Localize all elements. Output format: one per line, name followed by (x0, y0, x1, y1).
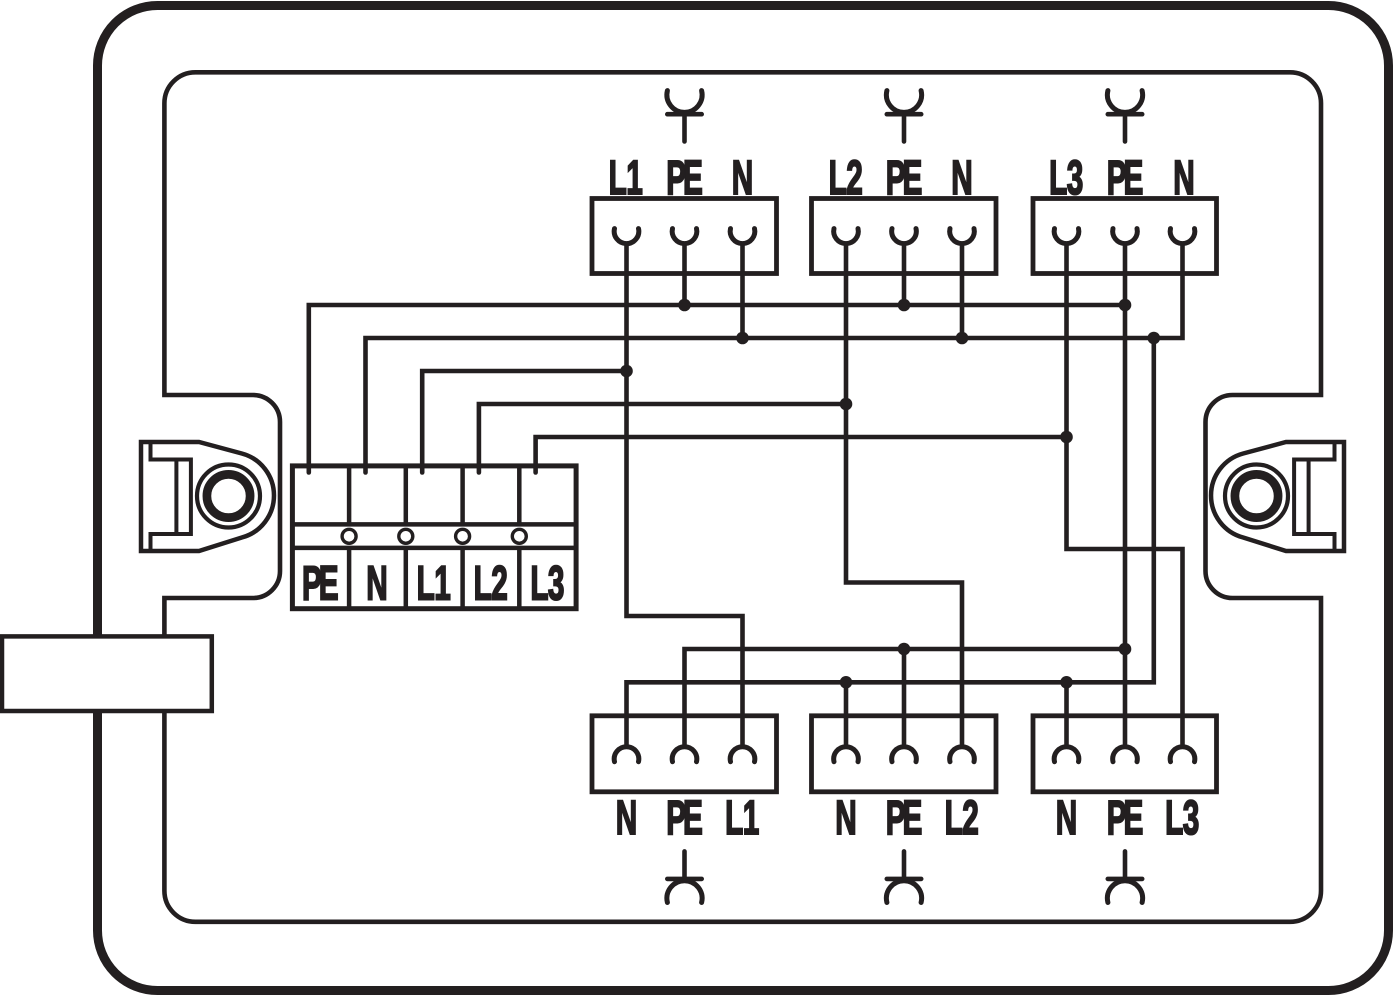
clamp contact N terminal block3 (1170, 229, 1195, 244)
wire stub N cell (363, 466, 368, 473)
junction PE-bottom-mid (898, 643, 911, 656)
junction N-bottom-right (1060, 676, 1073, 689)
clamp contact PE terminal block4 (672, 747, 697, 762)
socket symbol bottom 1 (667, 851, 702, 902)
wire stub PE cell (306, 466, 311, 473)
distribution block (PE N L1 L2 L3) (292, 466, 576, 609)
test port 4 (512, 529, 526, 543)
wire L3 feed to distribution block (536, 437, 1067, 465)
junction PE-B2 (898, 299, 911, 312)
clamp contact N terminal block6 (1054, 747, 1079, 762)
svg-text:PE: PE (666, 152, 702, 205)
svg-text:L2: L2 (829, 152, 862, 205)
clamp contact PE terminal block1 (672, 229, 697, 244)
mounting lug right (1211, 442, 1344, 551)
distribution block body (292, 466, 576, 609)
svg-text:L1: L1 (609, 152, 643, 205)
clamp contact PE terminal block2 (892, 229, 917, 244)
svg-text:PE: PE (302, 557, 338, 610)
svg-text:N: N (616, 792, 637, 845)
wire N bus top with B3 N stem (366, 243, 1183, 465)
junction L1 (620, 365, 633, 378)
svg-text:PE: PE (886, 792, 922, 845)
junction PE-B3 (1119, 299, 1132, 312)
junction PE-bottom-right (1119, 643, 1132, 656)
socket symbol top 2 (886, 91, 921, 142)
wire N entry bottom right (1064, 682, 1069, 747)
junction L3 (1060, 431, 1073, 444)
clamp contact PE terminal block6 (1113, 747, 1138, 762)
clamp contact PE terminal block3 (1113, 229, 1138, 244)
wire PE bus bottom (685, 649, 1126, 747)
wire stub L1 cell (420, 466, 425, 473)
clamp contact N terminal block2 (950, 229, 975, 244)
clamp contact L2 terminal block2 (834, 229, 859, 244)
separator line upper (292, 522, 576, 527)
socket symbol bottom 2 (886, 851, 921, 902)
terminal block bottom 3 (N PE L3) (1033, 716, 1217, 792)
wire L1 feed to distribution block (422, 371, 626, 465)
svg-text:L3: L3 (1049, 152, 1082, 205)
socket symbol bottom 3 (1107, 851, 1142, 902)
wire PE stem block2 (902, 243, 907, 305)
socket symbol top 3 (1107, 91, 1142, 142)
wire PE stem block3 down to bottom (1123, 243, 1128, 747)
enclosure inner wall with lug notches (164, 72, 1321, 922)
wire N stem block1 (740, 243, 745, 338)
test port 3 (456, 529, 470, 543)
clamp contact L1 terminal block4 (730, 747, 755, 762)
svg-text:N: N (835, 792, 856, 845)
svg-text:N: N (732, 152, 753, 205)
svg-text:L3: L3 (1165, 792, 1198, 845)
wire stub L3 cell (533, 466, 538, 473)
cable entry tab left (2, 636, 212, 711)
clamp contact PE terminal block5 (892, 747, 917, 762)
svg-text:PE: PE (666, 792, 702, 845)
svg-text:L2: L2 (474, 557, 507, 610)
clamp contact L1 terminal block1 (614, 229, 639, 244)
clamp contact N terminal block4 (614, 747, 639, 762)
wire L3 stem top to bottom (1067, 243, 1183, 747)
svg-text:PE: PE (886, 152, 922, 205)
svg-text:PE: PE (1107, 152, 1143, 205)
terminal block bottom 1 (N PE L1) (592, 716, 777, 792)
terminal block top 3 (L3 PE N) (1033, 199, 1217, 274)
test port 2 (399, 529, 413, 543)
wire PE bus top (309, 305, 1125, 465)
cell dividers lower row (349, 548, 519, 609)
terminal block top 1 (L1 PE N) (592, 199, 777, 274)
junction N-B2 (956, 332, 969, 345)
wire L1 stem top to bottom (627, 243, 743, 747)
junction PE-B1 (678, 299, 691, 312)
junction L2 (840, 398, 853, 411)
svg-text:L1: L1 (417, 557, 451, 610)
socket symbol top 1 (667, 91, 702, 142)
clamp contact L3 terminal block3 (1054, 229, 1079, 244)
svg-text:N: N (1173, 152, 1194, 205)
terminal block top 2 (L2 PE N) (812, 199, 997, 274)
svg-text:L1: L1 (725, 792, 759, 845)
test port 1 (342, 529, 356, 543)
svg-text:L2: L2 (945, 792, 978, 845)
clamp contact L3 terminal block6 (1170, 747, 1195, 762)
wire stub L2 cell (477, 466, 482, 473)
terminal block bottom 2 (N PE L2) (812, 716, 997, 792)
svg-text:L3: L3 (530, 557, 563, 610)
clamp contact N terminal block5 (834, 747, 859, 762)
cell dividers upper row (349, 466, 519, 525)
wire L2 feed to distribution block (479, 404, 846, 465)
wire N entry bottom middle (844, 682, 849, 747)
clamp contact L2 terminal block5 (950, 747, 975, 762)
wire PE stem block1 (682, 243, 687, 305)
clamp contact N terminal block1 (730, 229, 755, 244)
junction N-B1 (736, 332, 749, 345)
svg-text:PE: PE (1107, 792, 1143, 845)
mounting lug left (141, 442, 274, 551)
wire PE entry bottom middle (902, 649, 907, 747)
svg-text:N: N (1056, 792, 1077, 845)
wire L2 stem top to bottom (846, 243, 962, 747)
wire N stem block2 (960, 243, 965, 338)
separator line lower (292, 546, 576, 551)
junction N-bottom-mid (840, 676, 853, 689)
svg-text:N: N (951, 152, 972, 205)
junction N-branch (1148, 332, 1161, 345)
wire N branch to bottom blocks (627, 338, 1154, 747)
svg-text:N: N (366, 557, 387, 610)
